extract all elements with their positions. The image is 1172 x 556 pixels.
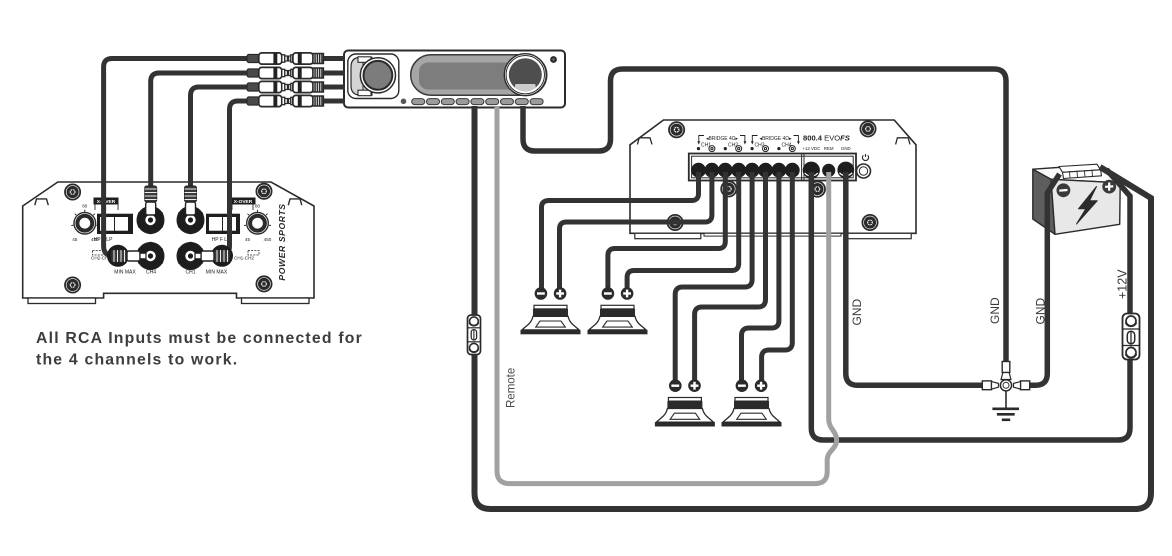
RCA jack CH3 (top row left) <box>138 207 164 233</box>
amplifier A2 800.4 EVO body <box>630 120 916 239</box>
screw A2 top-right <box>860 121 875 136</box>
amplifier A1 POWER SPORTS body <box>23 182 314 304</box>
RCA cable 3 left segment <box>191 87 249 190</box>
RCA connector pair row 3 <box>247 81 323 92</box>
battery terminal minus <box>1057 183 1071 197</box>
RCA connector pair row 4 <box>247 95 323 106</box>
wire CH4+ to speaker SP4 <box>762 172 793 381</box>
gain knob right CH1-CH2 <box>244 204 272 243</box>
gain knob left CH2-CH3 <box>71 204 99 243</box>
wire amp GND to junction <box>846 172 987 385</box>
svg-text:80: 80 <box>255 204 261 209</box>
svg-text:80: 80 <box>82 204 88 209</box>
head unit small button <box>401 99 407 105</box>
speaker SP3 <box>655 379 715 426</box>
svg-text:+12V: +12V <box>1116 269 1130 299</box>
svg-text:◂BRIDGE 4Ω▸: ◂BRIDGE 4Ω▸ <box>706 136 739 142</box>
wire head unit ground to junction <box>523 69 1006 378</box>
head unit button row <box>412 99 543 105</box>
wire CH2- to speaker SP2 <box>608 172 725 288</box>
wire CH1- to speaker SP1 <box>542 172 699 288</box>
wire battery minus to junction <box>1028 174 1060 385</box>
fuse holder F2 (battery to head unit) <box>468 315 481 355</box>
RCA cable stubs to head unit <box>322 56 345 61</box>
fuse holder F1 (battery to amp) <box>1123 314 1140 360</box>
label BRIDGE 4ohm left <box>697 136 746 149</box>
wire remote (gray) head unit to amp REM <box>497 106 837 484</box>
head unit display <box>411 55 547 95</box>
wire CH3- to speaker SP3 <box>675 172 752 381</box>
svg-text:X-OVER: X-OVER <box>234 199 253 205</box>
RCA jack CH4 (bottom row left) <box>138 243 164 269</box>
power terminal GND <box>837 162 854 179</box>
battery terminal plus <box>1102 180 1116 194</box>
screw A2 mid-left <box>721 181 736 196</box>
screw A1 top-right <box>256 184 271 199</box>
svg-text:45: 45 <box>245 237 251 242</box>
svg-text:CH1: CH1 <box>185 270 195 276</box>
RCA plug into CH1 (horizontal right) <box>195 245 233 267</box>
screw A2 bottom-left <box>668 215 683 230</box>
svg-text:GND: GND <box>988 297 1002 324</box>
RCA jack CH1 (bottom row right) <box>178 243 204 269</box>
svg-text:+12 VDC: +12 VDC <box>802 146 820 151</box>
RCA connector pair row 2 <box>247 67 323 78</box>
svg-text:CH4: CH4 <box>146 270 156 276</box>
wire amp +12VDC to battery plus <box>811 170 1130 441</box>
speaker SP4 <box>722 379 782 426</box>
power terminal REM <box>822 164 835 177</box>
svg-text:◂BRIDGE 4Ω▸: ◂BRIDGE 4Ω▸ <box>759 136 792 142</box>
head unit right knob <box>504 54 546 96</box>
terminal block <box>689 154 856 181</box>
wire CH2+ to speaker SP2 <box>627 172 739 288</box>
speaker SP2 <box>588 287 648 334</box>
svg-text:MIN MAX: MIN MAX <box>206 270 228 276</box>
svg-text:MIN MAX: MIN MAX <box>114 270 136 276</box>
svg-text:CH1: CH1 <box>701 143 711 149</box>
svg-text:450: 450 <box>264 237 272 242</box>
svg-text:45: 45 <box>72 237 78 242</box>
RCA cable 1 left segment <box>104 59 248 257</box>
wire CH3+ to speaker SP3 <box>695 172 766 381</box>
svg-text:POWER SPORTS: POWER SPORTS <box>277 203 287 280</box>
standby icon <box>862 154 868 161</box>
power terminal +12VDC <box>803 162 820 179</box>
head unit volume knob <box>360 58 395 93</box>
RCA plug into CH2 (vertical) <box>185 186 197 215</box>
svg-text:the 4 channels to work.: the 4 channels to work. <box>36 352 238 369</box>
crossover switch left with X-OVER tag <box>94 198 134 244</box>
wire CH1+ to speaker SP1 <box>560 172 712 288</box>
svg-text:X-OVER: X-OVER <box>97 199 116 205</box>
wire CH4- to speaker SP4 <box>742 172 779 381</box>
RCA cable 4 left segment <box>215 101 248 256</box>
ground junction T-connector <box>982 362 1029 409</box>
battery BT1 body <box>1033 164 1120 234</box>
svg-text:GND: GND <box>850 299 864 326</box>
svg-text:GND: GND <box>841 146 851 151</box>
head unit small led <box>550 56 557 63</box>
RCA cable 2 left segment <box>151 73 248 190</box>
svg-text:REM: REM <box>824 146 834 151</box>
screw A2 mid-right <box>810 182 825 197</box>
battery lightning bolt <box>1077 187 1098 225</box>
speaker SP1 <box>521 287 581 334</box>
svg-text:All RCA Inputs must be connect: All RCA Inputs must be connected for <box>36 330 363 347</box>
svg-text:GND: GND <box>1034 298 1048 325</box>
head unit detach panel left <box>348 54 399 99</box>
head unit (car stereo) body <box>344 51 565 108</box>
label BRIDGE 4ohm right <box>751 136 800 149</box>
note text RCA inputs <box>36 330 363 369</box>
svg-text:CH4: CH4 <box>781 143 791 149</box>
svg-text:CH1-CH2: CH1-CH2 <box>234 256 254 261</box>
screw A2 bottom-right <box>862 215 877 230</box>
small screws above terminals <box>697 147 781 150</box>
speaker terminals CH1..CH4 <box>691 163 800 178</box>
ground symbol <box>992 409 1019 420</box>
svg-text:800.4 EVOFS: 800.4 EVOFS <box>803 134 850 143</box>
wire head unit +12V to battery plus <box>475 106 1152 509</box>
RCA connector pair row 1 <box>247 53 323 64</box>
screw A1 bottom-left <box>65 277 80 292</box>
RCA plug into CH3 (vertical) <box>145 186 157 215</box>
screw A2 top-left <box>669 122 684 137</box>
svg-text:CH2: CH2 <box>728 143 738 149</box>
RCA plug into CH4 (horizontal left) <box>107 245 146 267</box>
svg-text:Remote: Remote <box>506 368 518 408</box>
RCA jack CH2 (top row right) <box>178 207 204 233</box>
screw A1 bottom-right <box>256 276 271 291</box>
crossover switch right with POWER tag <box>206 198 256 244</box>
screw A1 top-left <box>65 184 80 199</box>
power button <box>857 164 871 178</box>
